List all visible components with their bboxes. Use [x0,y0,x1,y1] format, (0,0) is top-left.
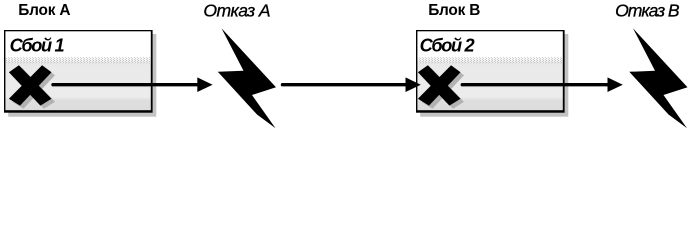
svg-text:Блок В: Блок В [428,2,480,19]
block B box [416,30,565,113]
svg-text:Сбой 2: Сбой 2 [420,36,475,56]
lightning bolt A (Отказ А symbol) [218,28,276,128]
X mark A (failure cross in block A) [9,65,52,105]
lightning bolt B (Отказ В symbol) [629,28,687,128]
arrowhead 1 [197,77,212,92]
block A shadow [8,34,156,117]
arrowhead 2 [406,77,421,92]
X mark B (failure cross in block B) [418,65,461,105]
svg-text:Сбой 1: Сбой 1 [10,36,65,56]
X mark B shadow [421,68,464,108]
block B shadow [420,34,568,117]
block A box [4,30,153,113]
svg-text:Отказ В: Отказ В [615,0,680,20]
texture band A [5,57,150,64]
wire: failure A to block B [283,83,408,86]
svg-text:Блок А: Блок А [18,2,70,19]
wire: block A to failure A [53,83,199,86]
texture band B [417,57,562,64]
wire: block B to failure B [462,83,608,86]
X mark A shadow [12,68,55,108]
arrowhead 3 [608,77,623,92]
svg-text:Отказ А: Отказ А [203,0,270,20]
